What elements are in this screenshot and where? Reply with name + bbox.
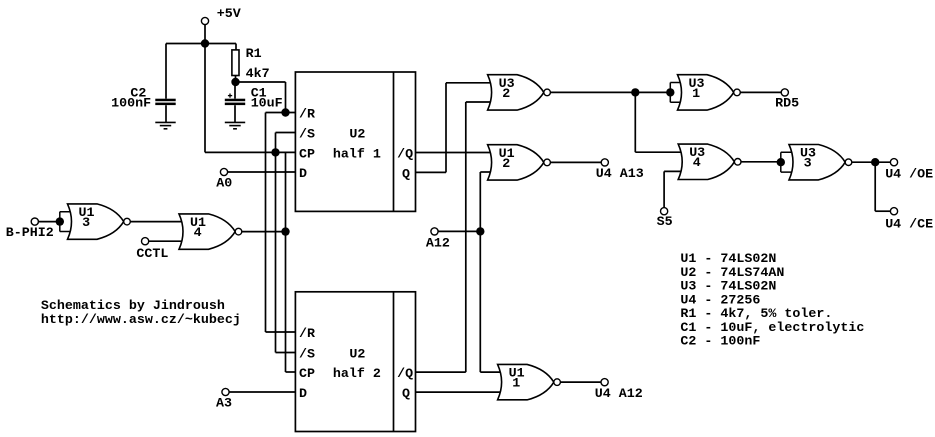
svg-text:10uF: 10uF bbox=[251, 96, 283, 111]
svg-text:U2: U2 bbox=[349, 128, 365, 143]
svg-text:1: 1 bbox=[692, 87, 700, 102]
svg-text:A12: A12 bbox=[426, 237, 450, 252]
svg-text:RD5: RD5 bbox=[775, 96, 799, 111]
svg-text:R1: R1 bbox=[246, 47, 262, 62]
svg-text:http://www.asw.cz/~kubecj: http://www.asw.cz/~kubecj bbox=[41, 313, 241, 328]
svg-text:D: D bbox=[299, 167, 307, 182]
svg-text:U2: U2 bbox=[349, 348, 365, 363]
svg-text:CP: CP bbox=[299, 148, 315, 163]
svg-text:4: 4 bbox=[693, 156, 701, 171]
svg-text:half 2: half 2 bbox=[333, 367, 381, 382]
svg-text:D: D bbox=[299, 387, 307, 402]
svg-text:U4 A12: U4 A12 bbox=[595, 387, 643, 402]
svg-text:/S: /S bbox=[299, 348, 315, 363]
svg-text:3: 3 bbox=[804, 157, 812, 172]
svg-text:1: 1 bbox=[512, 377, 520, 392]
svg-text:A0: A0 bbox=[216, 177, 232, 192]
svg-text:C2 - 100nF: C2 - 100nF bbox=[680, 334, 760, 349]
svg-text:CP: CP bbox=[299, 367, 315, 382]
svg-text:U4 /CE: U4 /CE bbox=[885, 218, 933, 233]
svg-text:CCTL: CCTL bbox=[136, 247, 168, 262]
svg-text:4k7: 4k7 bbox=[246, 67, 270, 82]
svg-text:2: 2 bbox=[502, 157, 510, 172]
svg-text:Schematics by Jindroush: Schematics by Jindroush bbox=[41, 299, 225, 314]
svg-text:Q: Q bbox=[402, 387, 410, 402]
svg-text:4: 4 bbox=[194, 226, 202, 241]
svg-text:U4 A13: U4 A13 bbox=[596, 167, 644, 182]
svg-text:S5: S5 bbox=[657, 215, 673, 230]
svg-text:/Q: /Q bbox=[397, 148, 413, 163]
svg-text:half 1: half 1 bbox=[333, 148, 381, 163]
svg-text:100nF: 100nF bbox=[111, 97, 151, 112]
svg-text:3: 3 bbox=[82, 216, 90, 231]
svg-text:/Q: /Q bbox=[397, 367, 413, 382]
svg-text:A3: A3 bbox=[216, 397, 232, 412]
svg-text:Q: Q bbox=[402, 167, 410, 182]
svg-text:2: 2 bbox=[502, 87, 510, 102]
svg-text:B-PHI2: B-PHI2 bbox=[6, 226, 54, 241]
svg-text:+5V: +5V bbox=[217, 7, 241, 22]
svg-text:/S: /S bbox=[299, 128, 315, 143]
svg-text:/R: /R bbox=[299, 108, 315, 123]
svg-text:/R: /R bbox=[299, 327, 315, 342]
svg-text:U4 /OE: U4 /OE bbox=[885, 167, 933, 182]
